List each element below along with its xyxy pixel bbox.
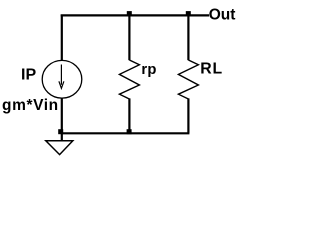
svg-text:IP: IP	[21, 67, 36, 84]
svg-text:RL: RL	[200, 60, 223, 77]
svg-text:gm*Vin: gm*Vin	[2, 97, 59, 114]
svg-text:rp: rp	[141, 62, 156, 78]
svg-text:Out: Out	[209, 6, 236, 23]
